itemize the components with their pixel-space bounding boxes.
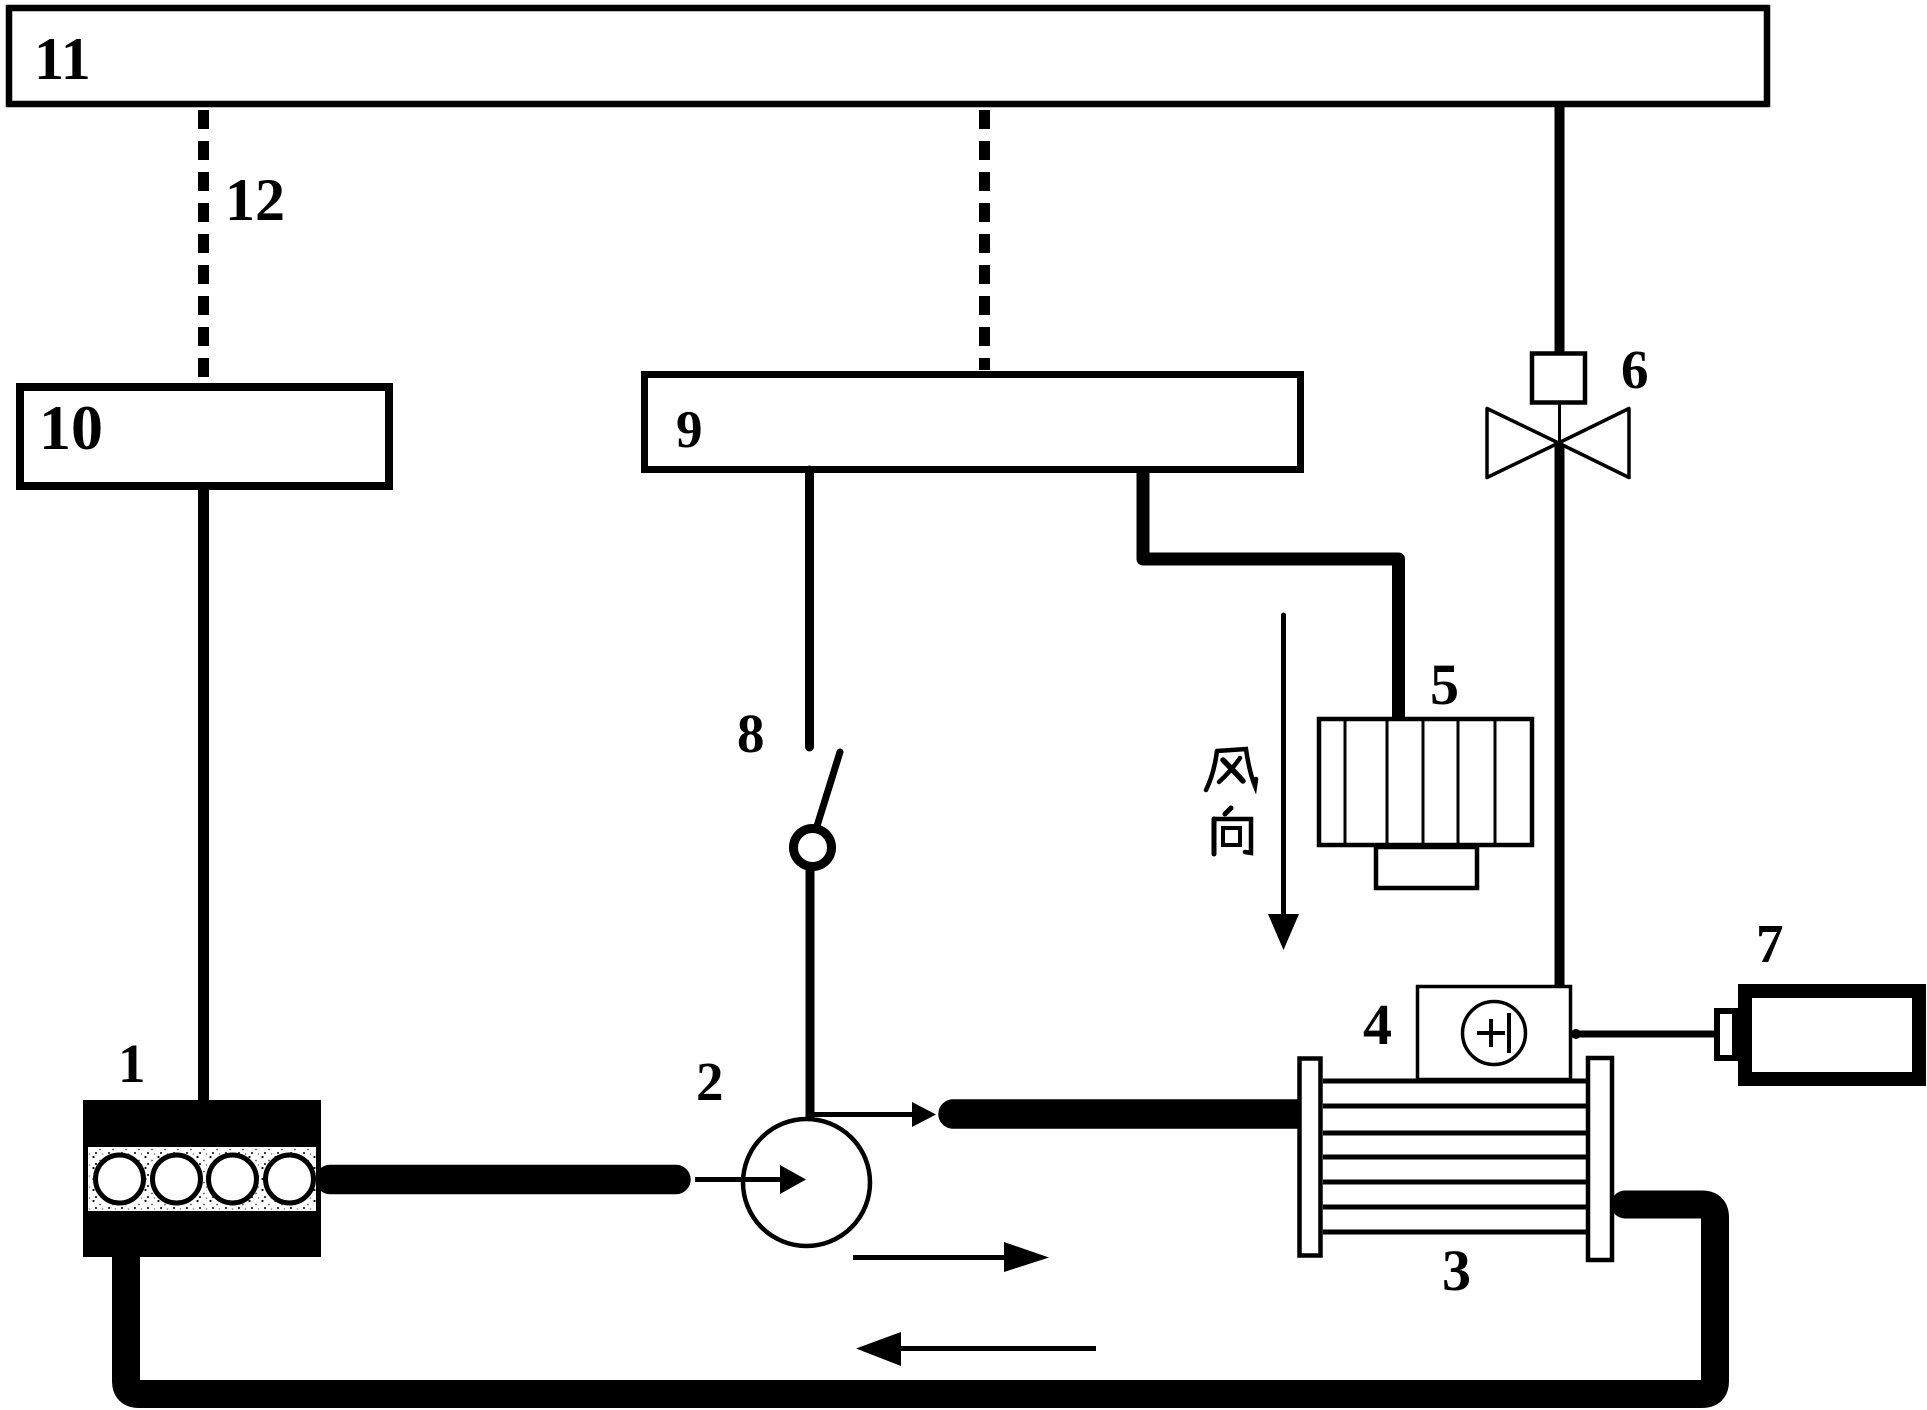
valve stem (1558, 403, 1561, 443)
dashed signal line (box 11 to box 9) (979, 110, 990, 370)
svg-text:3: 3 (1442, 1238, 1471, 1303)
arrow into pump 2 (695, 1177, 781, 1182)
valve 6 actuator (1532, 354, 1585, 403)
wire box 11 to valve 6 (1555, 107, 1565, 352)
pipe pump 2 to radiator 3 (953, 1099, 1305, 1129)
svg-text:10: 10 (39, 392, 103, 463)
box 9 (645, 375, 1301, 470)
flow arrow left (lower) (899, 1346, 1096, 1351)
fan motor box 4 (1418, 987, 1571, 1080)
radiator 3 right tank (1588, 1058, 1612, 1260)
svg-text:8: 8 (737, 703, 765, 764)
wire box 9 to fan 5 (1143, 470, 1399, 720)
switch 8 pivot (794, 829, 832, 867)
fan 5 core (1319, 719, 1532, 845)
svg-text:11: 11 (34, 26, 91, 92)
wire box 4 to sensor 7 (1572, 1031, 1716, 1038)
svg-text:2: 2 (696, 1051, 724, 1112)
svg-text:7: 7 (1756, 913, 1784, 974)
controller box 11 (9, 8, 1767, 104)
wind text 风 (1206, 749, 1256, 790)
svg-text:12: 12 (225, 167, 285, 233)
radiator 3 core (1323, 1081, 1586, 1232)
svg-text:5: 5 (1430, 652, 1459, 717)
engine outlet pipe to pump (330, 1165, 676, 1195)
svg-text:1: 1 (118, 1033, 146, 1094)
switch 8 lever (817, 752, 840, 826)
svg-text:9: 9 (676, 401, 703, 459)
sensor 7 connector (1717, 1011, 1735, 1058)
box 10 (20, 387, 389, 486)
pump 2 circle (743, 1119, 870, 1246)
radiator 3 left tank (1300, 1059, 1321, 1256)
wire box 10 to engine 1 (198, 486, 209, 1105)
svg-text:6: 6 (1621, 339, 1649, 400)
flow arrow right (upper) (853, 1255, 1006, 1260)
wind direction arrow (1281, 615, 1286, 916)
wind text 向 (1214, 808, 1251, 854)
return pipe (radiator 3 to engine 1) (126, 1205, 1715, 1395)
valve 6 body (1487, 409, 1559, 478)
fan 5 dividers (1345, 719, 1495, 845)
arrow pump outlet (812, 1112, 913, 1117)
wire switch 8 to pump 2 (806, 866, 815, 1120)
sensor 7 (1745, 991, 1919, 1079)
wire box 9 to switch 8 (805, 470, 814, 747)
svg-text:4: 4 (1363, 992, 1392, 1057)
wire valve 6 to fan motor 4 (1555, 443, 1565, 987)
engine block 1 (83, 1100, 321, 1257)
dashed signal line 12 (box 11 to box 10) (198, 110, 209, 382)
fan 5 base (1376, 847, 1477, 888)
motor symbol (1463, 1002, 1526, 1065)
